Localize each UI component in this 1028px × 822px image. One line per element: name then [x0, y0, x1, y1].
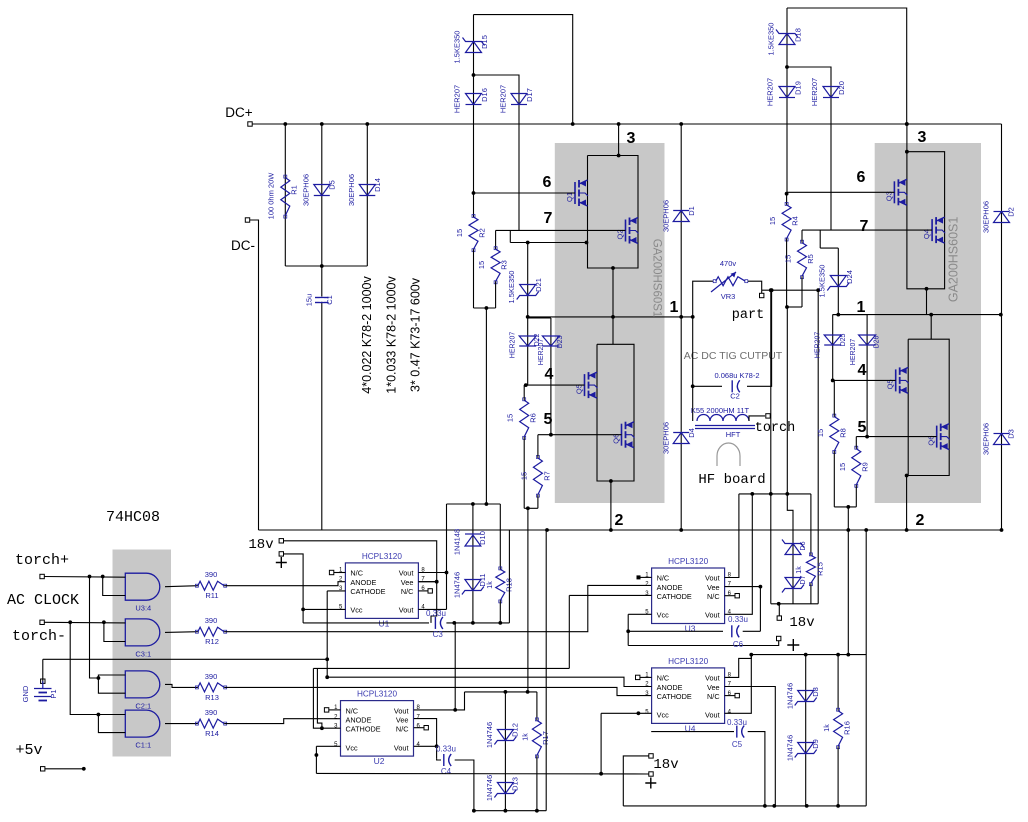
svg-text:R6: R6 [529, 413, 538, 423]
U3 NC solid stub [637, 575, 641, 579]
svg-text:D9: D9 [811, 739, 820, 749]
junction upper loop bottom [611, 266, 615, 270]
svg-text:HER207: HER207 [499, 85, 508, 113]
terminal U1 NC right [428, 589, 432, 593]
wire 290 link [762, 289, 819, 291]
svg-text:30EPH06: 30EPH06 [982, 201, 991, 233]
wire U1 cathode [327, 590, 345, 592]
wire R16 line [837, 655, 839, 711]
HF board arc [717, 443, 740, 466]
wire kelvin drop [509, 230, 511, 242]
wire upper loop to pin1 [612, 268, 614, 317]
optocoupler U3 HCPL3120 box [652, 568, 725, 624]
terminal 18v right top [777, 616, 781, 620]
wire common rail [43, 658, 327, 660]
svg-text:0.33u: 0.33u [436, 745, 456, 754]
wire U1 cathode drop [326, 591, 328, 677]
junction rail/473 [472, 809, 476, 813]
wire D6 line [787, 494, 793, 604]
wire U1 vout tie [446, 573, 448, 610]
wire DC+ rail [252, 123, 1002, 125]
wire lower gate drop left [527, 508, 529, 692]
zener D11 1N4746 [465, 580, 481, 591]
junction torch+/gate3 tap [88, 575, 92, 579]
wire snubber bottom [285, 265, 367, 267]
svg-text:R16: R16 [843, 721, 852, 735]
svg-text:R15: R15 [816, 562, 825, 576]
IGBT module U6 background (right GA200HS60S1) [875, 143, 981, 503]
wire D8 line [805, 655, 807, 806]
resistor R2 [469, 217, 478, 249]
junction 654/751 [749, 653, 753, 657]
junction u4 vcc [637, 711, 641, 715]
junction torch+/pin2 tap [101, 575, 105, 579]
zener D6 1N4746 [785, 544, 801, 555]
wire U2 bottom rail [316, 772, 648, 775]
svg-text:HER207: HER207 [538, 339, 545, 366]
svg-text:15: 15 [455, 229, 464, 237]
plus sign right 18v [787, 639, 799, 651]
junction clamp/486 [485, 502, 489, 506]
zener D9 1N4746 [798, 743, 814, 754]
diode D5 30EPH06 [314, 185, 330, 196]
svg-text:5: 5 [858, 419, 867, 436]
svg-text:D26: D26 [874, 335, 881, 348]
terminal U2 NC [324, 708, 328, 712]
svg-text:15: 15 [520, 472, 529, 480]
svg-text:R13: R13 [205, 693, 219, 702]
svg-text:N/C: N/C [707, 592, 720, 601]
wire D22 loop [528, 317, 551, 319]
svg-text:D19: D19 [794, 81, 803, 95]
junction D18/D19 [785, 65, 789, 69]
svg-text:HER207: HER207 [815, 332, 822, 359]
junction D4/DC- [679, 528, 683, 532]
wire U2 cathode stub2 [317, 668, 322, 728]
terminal 18v bl bot [649, 772, 653, 776]
terminal torch [766, 414, 770, 418]
junction lower loop bottom [609, 479, 613, 483]
svg-text:R17: R17 [541, 731, 550, 745]
svg-text:Vout: Vout [705, 674, 720, 683]
wire u2 vout up-jog [455, 692, 464, 710]
svg-text:1N4746: 1N4746 [485, 775, 494, 801]
wire R4R5 drop [786, 307, 788, 494]
diode D10 1N4148 [465, 535, 481, 546]
wire 509 riser [508, 530, 510, 623]
wire lower loop right module [908, 339, 949, 475]
svg-text:torch: torch [755, 421, 796, 436]
wire U1 vcc [303, 608, 345, 610]
wire U2 vout bottom [414, 745, 437, 747]
battery P1 [34, 688, 52, 690]
svg-text:C6: C6 [733, 640, 744, 649]
svg-text:CATHODE: CATHODE [350, 587, 385, 596]
junction pin1/D22 loop [526, 315, 530, 319]
junction pin2/DC- right [905, 528, 909, 532]
IGBT module U5 background (left GA200HS60S1) [555, 143, 665, 503]
svg-text:15: 15 [838, 463, 847, 471]
svg-text:Vcc: Vcc [657, 711, 670, 720]
junction u3 vcc/C6 [626, 629, 630, 633]
junction gate5/R7 [549, 433, 553, 437]
wire D24 top link [820, 247, 838, 249]
svg-text:N/C: N/C [657, 674, 670, 683]
svg-text:3: 3 [627, 130, 636, 147]
junction R4R5 tie [785, 305, 789, 309]
wire U3 vout bottom [725, 494, 753, 614]
svg-text:HER207: HER207 [453, 85, 462, 113]
svg-text:4: 4 [545, 366, 554, 383]
resistor R7 [533, 458, 542, 495]
svg-text:1k: 1k [796, 566, 803, 574]
terminal 18v top stub [279, 539, 283, 543]
wire gate3 pin1 jog [98, 675, 125, 678]
junction upper loop top [617, 154, 621, 158]
transistor Q1 [574, 182, 576, 204]
wire clamp2 top [465, 691, 537, 693]
terminal U1 NC [329, 570, 333, 574]
svg-text:D10: D10 [478, 531, 487, 545]
wire gate2 pin2 jog [104, 622, 125, 641]
junction gate4 split [97, 713, 101, 717]
junction gate4 right [831, 379, 835, 383]
wire D24 top drop [819, 230, 821, 248]
wire R17 bottom [536, 755, 538, 810]
svg-text:D23: D23 [557, 335, 564, 348]
wire U4 vcc [601, 712, 652, 714]
svg-text:C5: C5 [732, 740, 743, 749]
svg-text:U2: U2 [374, 756, 385, 766]
transistor Q4 (lower left B) [621, 424, 623, 446]
wire gate3 pin2 jog [98, 678, 125, 693]
junction R8R9 tie [846, 505, 850, 509]
wire gate 6 right [787, 191, 895, 193]
svg-text:0.33u: 0.33u [426, 609, 446, 618]
wire gate return drop right [770, 290, 772, 604]
wire R8R9 tie [834, 506, 856, 508]
svg-text:1.5KE350: 1.5KE350 [453, 31, 462, 64]
wire D12 line [504, 692, 506, 811]
resistor R6 [520, 400, 529, 437]
junction C1 top [320, 264, 324, 268]
svg-text:Vcc: Vcc [657, 611, 670, 620]
AND gate C1:1 [125, 710, 160, 737]
diode D20 HER207 [823, 87, 839, 98]
resistor R18 [496, 569, 505, 600]
svg-text:Vout: Vout [394, 743, 409, 752]
junction D3/DC- [1000, 528, 1004, 532]
wire U4 vout bottom [725, 655, 752, 714]
svg-text:4: 4 [858, 362, 867, 379]
wire 546 vertical [545, 530, 547, 811]
wire gate 4 right [833, 379, 896, 381]
resistor R15 [806, 555, 815, 583]
terminal DC+ [248, 122, 252, 126]
wire upper loop to pin1 right [926, 289, 928, 315]
svg-text:D2: D2 [1007, 207, 1016, 217]
wire U1 vee drop [431, 582, 437, 623]
wire gate 4 left [526, 384, 585, 386]
svg-text:D21: D21 [534, 278, 543, 292]
svg-text:+5v: +5v [15, 742, 42, 759]
wire 866 vertical [865, 530, 867, 806]
svg-text:N/C: N/C [707, 692, 720, 701]
svg-text:R5: R5 [806, 254, 815, 264]
wire U3 cathode drop [568, 595, 570, 668]
AND gate U3:4 [125, 573, 160, 600]
zener D12 1N4746 [497, 730, 513, 741]
wire P1 to common [42, 659, 44, 683]
resistor R8 [830, 417, 839, 451]
wire gate1 out [165, 586, 198, 587]
junction ac/gate4 tap [68, 620, 72, 624]
wire R9 top [855, 437, 857, 449]
svg-text:D14: D14 [373, 178, 382, 192]
wire U3 vee [725, 586, 761, 588]
wire 18v top stub [778, 604, 780, 616]
wire R4 bottom [786, 239, 788, 308]
junction 546/DC- [545, 528, 549, 532]
svg-text:U3: U3 [685, 624, 696, 634]
resistor R12 [198, 627, 224, 636]
wire bottom rail right [623, 805, 866, 807]
svg-text:30EPH06: 30EPH06 [347, 174, 356, 206]
svg-text:7: 7 [860, 218, 869, 235]
transil D18 1.5KE350 [779, 34, 795, 45]
junction c3/454 [452, 621, 456, 625]
junction 6-wire/R2 [472, 191, 476, 195]
wire gate4 taps [70, 622, 98, 714]
transistor Q5 right [895, 369, 897, 391]
svg-text:Vout: Vout [705, 574, 720, 583]
plus sign bottom 18v [645, 778, 656, 789]
wire R1 leads [284, 124, 286, 266]
wire clamp2 bottom rail [473, 810, 547, 812]
diode D3 30EPH06 [994, 434, 1010, 445]
svg-text:3* 0.47 K73-17 600v: 3* 0.47 K73-17 600v [409, 277, 423, 392]
junction vcc/c3 rail [301, 608, 305, 612]
svg-text:30EPH06: 30EPH06 [662, 200, 671, 232]
svg-text:part: part [732, 308, 764, 323]
junction 818 top [816, 288, 820, 292]
svg-text:HER207: HER207 [510, 332, 517, 359]
svg-text:D1: D1 [687, 206, 696, 216]
wire battery lead [42, 681, 44, 688]
svg-text:30EPH06: 30EPH06 [302, 174, 311, 206]
wire 818 drop [817, 290, 819, 604]
wire gate3 out [165, 684, 198, 687]
svg-text:ANODE: ANODE [346, 716, 372, 725]
diode D14 30EPH06 [359, 185, 375, 196]
svg-text:30EPH06: 30EPH06 [982, 423, 991, 455]
junction 493/770 [769, 492, 773, 496]
transistor Q2 [625, 220, 627, 242]
svg-text:R3: R3 [500, 260, 509, 270]
capacitor C3 [434, 617, 436, 629]
junction DC+/D14 [365, 122, 369, 126]
junction D15/D16 [472, 73, 476, 77]
wire U4 vout top [725, 655, 752, 678]
wire part stub [761, 290, 763, 293]
wire R3 top lead [495, 230, 497, 249]
svg-text:1k: 1k [487, 581, 494, 589]
svg-text:R7: R7 [543, 471, 552, 481]
wire R8 bottom [833, 451, 835, 507]
svg-text:CATHODE: CATHODE [657, 692, 692, 701]
wire R6 top [523, 385, 525, 400]
wire D22 branch [527, 318, 529, 385]
wire U2 cathode [313, 668, 340, 728]
resistor R16 [834, 711, 843, 747]
svg-text:P1: P1 [49, 689, 58, 698]
svg-text:1N4148: 1N4148 [453, 529, 462, 555]
junction gate5 right [865, 435, 869, 439]
wire R8 top [833, 380, 835, 416]
svg-text:HCPL3120: HCPL3120 [362, 552, 403, 561]
terminal +5v [41, 767, 45, 771]
svg-text:D5: D5 [328, 180, 337, 190]
diode D19 HER207 [779, 87, 795, 98]
terminal 18v right bot [777, 636, 781, 640]
svg-text:N/C: N/C [346, 706, 359, 715]
resistor R4 [782, 205, 791, 239]
wire D14 leads [366, 124, 368, 266]
wire pin 1 right [833, 314, 1001, 316]
junction pin1r/D24 [836, 313, 840, 317]
wire R18 line [499, 504, 501, 569]
junction DC+/D5 [320, 122, 324, 126]
wire pin 1 left [528, 316, 693, 318]
wire R3 bottom [495, 281, 497, 308]
wire U1 NC right [418, 590, 428, 592]
wire gate4 pin1 jog [98, 714, 125, 716]
junction c3/D11 [471, 621, 475, 625]
svg-text:100 0hm 20W: 100 0hm 20W [267, 172, 276, 220]
varistor VR3 arrow [711, 272, 736, 292]
svg-text:D4: D4 [687, 428, 696, 438]
svg-text:6: 6 [543, 174, 552, 191]
junction upper loop bottom right [925, 287, 929, 291]
svg-text:HER207: HER207 [766, 78, 775, 106]
wire D25 branch [832, 315, 834, 381]
svg-text:N/C: N/C [401, 587, 414, 596]
wire u3 vee drop [759, 587, 761, 632]
svg-text:CATHODE: CATHODE [346, 725, 381, 734]
junction 493/787 [785, 492, 789, 496]
varistor VR3 body [716, 277, 746, 286]
svg-text:390: 390 [205, 672, 218, 681]
wire lower loop left module [597, 344, 634, 481]
wire 455 vertical [454, 623, 456, 710]
wire D5 leads [321, 124, 323, 266]
zener D7 1N4746 [785, 578, 801, 589]
wire R16 bottom [837, 746, 839, 806]
junction U1 vout tie [445, 571, 449, 575]
svg-text:1*0.033 K78-2 1000v: 1*0.033 K78-2 1000v [385, 276, 399, 394]
wire gate3 taps [90, 577, 99, 679]
wire 848 ext [847, 654, 849, 656]
wire D23 branch [550, 318, 552, 435]
wire R9 bottom [855, 485, 857, 507]
svg-text:HER207: HER207 [810, 78, 819, 106]
wire R12 run [224, 585, 651, 631]
wire VR3 right [748, 281, 762, 290]
svg-text:1: 1 [670, 299, 679, 316]
transil D21 1.5KE350 [520, 285, 536, 296]
inductor HFT winding [697, 415, 710, 421]
capacitor C2 [731, 380, 733, 392]
optocoupler U2 HCPL3120 box [341, 701, 414, 757]
diode D23 HER207 [542, 336, 559, 346]
svg-text:0.068u K78-2: 0.068u K78-2 [714, 371, 759, 380]
wire R2 bottom [473, 249, 475, 308]
svg-text:HER207: HER207 [850, 339, 857, 366]
svg-text:R11: R11 [205, 591, 218, 600]
svg-text:D12: D12 [511, 723, 520, 737]
resistor R11 [198, 581, 224, 590]
wire D1-D4 column [680, 124, 682, 530]
wire 677 link [327, 677, 652, 686]
svg-text:2: 2 [916, 512, 925, 529]
wire gate4 out [165, 723, 198, 725]
junction pin1 ext [691, 315, 695, 319]
svg-text:HCPL3120: HCPL3120 [668, 657, 709, 666]
svg-text:D16: D16 [480, 88, 489, 102]
svg-text:N/C: N/C [657, 574, 670, 583]
svg-text:D8: D8 [811, 687, 820, 697]
junction DC+/pin3 right [905, 122, 909, 126]
wire 18v to U1 Vee [284, 541, 437, 582]
diode D1 30EPH06 [673, 211, 689, 222]
terminal part node [760, 293, 764, 297]
svg-text:Vee: Vee [401, 578, 414, 587]
svg-text:15: 15 [477, 261, 486, 269]
74HC08 background box [113, 550, 172, 757]
svg-text:Vout: Vout [399, 569, 414, 578]
diode D16 HER207 [466, 94, 482, 105]
svg-text:HCPL3120: HCPL3120 [357, 690, 398, 699]
svg-text:30EPH06: 30EPH06 [662, 422, 671, 454]
junction pin1r/loops [929, 313, 933, 317]
junction gate4/D22 [524, 383, 528, 387]
junction 848/DC- [846, 528, 850, 532]
svg-text:1: 1 [857, 299, 866, 316]
junction u2 vcc corner [315, 753, 319, 757]
wire U2 vcc [316, 745, 340, 747]
wire U2 vcc drop [315, 746, 317, 773]
wire pin3 drop left [618, 124, 620, 156]
wire D15-D16 line [473, 15, 475, 193]
junction ac/pin2 tap [102, 620, 106, 624]
svg-text:D11: D11 [478, 573, 487, 586]
svg-text:HF board: HF board [698, 472, 765, 488]
wire 493 bus [739, 493, 811, 495]
resistor R1 [281, 178, 290, 216]
svg-text:GA200HS60S1: GA200HS60S1 [651, 239, 663, 318]
wire pin1 to lower loop right [930, 315, 932, 340]
wire gate 6 left [474, 192, 576, 194]
svg-text:390: 390 [205, 708, 218, 717]
svg-text:Vout: Vout [399, 606, 414, 615]
transistor Q3 (lower left A) [584, 374, 586, 396]
wire R6R7 tie [524, 507, 538, 509]
wire D25D26 top [833, 314, 867, 316]
svg-text:15: 15 [506, 414, 515, 422]
wire R6 bottom [523, 437, 525, 509]
svg-text:74HC08: 74HC08 [106, 509, 160, 526]
wire U3 vcc drop [627, 614, 629, 645]
